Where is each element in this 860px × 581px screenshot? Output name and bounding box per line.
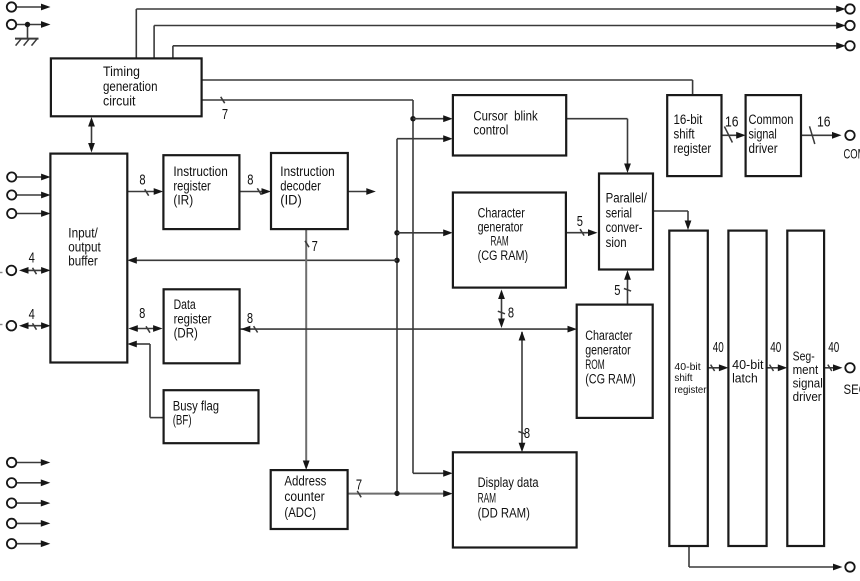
terminal COM output	[845, 131, 854, 140]
block Character generator RAM (CG RAM)	[453, 193, 566, 288]
clipped label fragment at left edge (lower)	[0, 324, 3, 326]
svg-text:blink: blink	[514, 109, 538, 124]
svg-text:40: 40	[770, 340, 781, 356]
terminal E	[7, 209, 16, 218]
wire cursor blink control to parallel/serial conversion	[566, 119, 631, 173]
terminal RS	[7, 172, 16, 181]
svg-text:counter: counter	[284, 489, 325, 504]
svg-text:output: output	[68, 240, 101, 255]
terminal bottom-left 2	[7, 478, 16, 487]
wire bidirectional 4-bit bus DB4-DB7 terminal to input/output buffer	[19, 267, 51, 274]
bus width label 5 (CG ROM output)	[614, 283, 620, 299]
svg-text:buffer: buffer	[68, 253, 98, 268]
svg-text:7: 7	[312, 239, 318, 255]
block Parallel/serial conversion	[599, 174, 653, 270]
svg-text:4: 4	[29, 251, 35, 267]
svg-text:(DR): (DR)	[174, 326, 198, 341]
block Instruction decoder (ID)	[271, 153, 348, 229]
wire 7-bit address: address counter to display data RAM	[348, 490, 453, 497]
wire branch to character generator RAM input	[397, 229, 453, 236]
svg-text:16: 16	[817, 114, 831, 130]
svg-text:(CG RAM): (CG RAM)	[478, 248, 528, 263]
bus width label 8 (DD RAM vertical)	[524, 426, 530, 442]
svg-text:5: 5	[577, 214, 583, 230]
block Address counter (ADC)	[271, 470, 348, 529]
terminal OSC2	[7, 20, 16, 29]
wire instruction decoder output stub (to timing area)	[348, 188, 376, 195]
wire OSC2 terminal lead with ground tap	[16, 21, 50, 38]
svg-text:Input/: Input/	[68, 226, 98, 241]
svg-text:ROM: ROM	[585, 357, 605, 372]
svg-text:(DD RAM): (DD RAM)	[478, 506, 530, 521]
wire 8-bit bus: input/output buffer to instruction register	[127, 188, 163, 196]
svg-text:16-bit: 16-bit	[674, 112, 703, 127]
block Instruction register (IR)	[163, 155, 239, 229]
svg-text:Cursor: Cursor	[473, 109, 508, 124]
svg-text:(ADC): (ADC)	[284, 505, 316, 520]
terminal SEG output	[845, 363, 854, 372]
block Segment signal driver (tall)	[787, 231, 824, 546]
svg-text:Address: Address	[284, 474, 326, 489]
svg-text:conver-: conver-	[606, 220, 643, 235]
svg-text:shift: shift	[674, 372, 692, 384]
wire 7-line bus from timing generation circuit down to display data RAM	[202, 97, 453, 477]
wire 40-bit shift register serial out to bottom-right terminal	[689, 546, 843, 570]
wire address bus (line B): cursor blink input 2 riser down to address counter output rail	[397, 135, 453, 493]
wire 7-bit bus: instruction decoder down to address counter	[303, 229, 310, 470]
wire bidirectional 8-bit: character generator RAM to data bus	[498, 290, 505, 329]
svg-text:8: 8	[139, 172, 145, 188]
bus width label 5 (CG RAM output)	[577, 214, 583, 230]
wire M output: riser to top rail 3, to right-edge terminal	[173, 42, 846, 58]
svg-text:Common: Common	[749, 112, 794, 127]
bus width label 8 (data bus)	[247, 311, 253, 327]
terminal CL2 (top right)	[845, 21, 854, 30]
svg-text:4: 4	[29, 307, 35, 323]
wire bidirectional 8-bit bus: input/output buffer to data register	[128, 325, 162, 333]
svg-text:8: 8	[508, 306, 514, 322]
svg-text:8: 8	[247, 311, 253, 327]
svg-text:Character: Character	[585, 328, 633, 343]
wire OSC1 terminal lead (top-left)	[16, 4, 50, 11]
svg-text:signal: signal	[749, 127, 777, 142]
block Display data RAM (DD RAM)	[453, 452, 577, 547]
block Data register (DR)	[164, 289, 240, 363]
terminal serial data out (bottom right)	[845, 562, 854, 571]
svg-text:generator: generator	[478, 220, 524, 235]
terminal bottom-left 1	[7, 458, 16, 467]
svg-text:shift: shift	[674, 127, 695, 142]
terminal OSC1	[7, 2, 16, 11]
svg-text:(ID): (ID)	[280, 193, 302, 208]
svg-text:Busy flag: Busy flag	[173, 399, 219, 414]
svg-text:Data: Data	[174, 297, 196, 312]
svg-text:driver: driver	[793, 389, 823, 404]
bus width label 40 (driver output)	[828, 340, 839, 356]
wire branch to input/output buffer (read-back)	[127, 257, 397, 264]
wire timing clock to 16-bit shift register	[202, 80, 693, 95]
wire 5-bit bus: character generator RAM to parallel/serial conversion	[566, 229, 598, 236]
bus width label 4 (lower)	[29, 307, 35, 323]
bus width label 7 (ADC output)	[356, 478, 362, 494]
svg-text:control: control	[473, 123, 508, 138]
node ground tap junction	[25, 22, 30, 27]
bus width label 16 (shift register to driver)	[725, 114, 739, 130]
bus width label 40 (shift register to latch)	[713, 340, 724, 356]
svg-text:40: 40	[828, 340, 839, 356]
svg-text:Instruction: Instruction	[280, 164, 334, 179]
wire parallel/serial conversion to 40-bit shift register	[653, 211, 691, 230]
terminal DB0-DB3	[7, 321, 17, 331]
bus width label 8 (ID input)	[247, 172, 253, 188]
block Timing generation circuit	[51, 58, 202, 116]
terminal CL1 (top right)	[845, 4, 854, 13]
wire 40-bit bus: segment signal driver to SEG terminal	[824, 364, 842, 371]
svg-text:SEG: SEG	[844, 382, 860, 397]
svg-text:(BF): (BF)	[173, 413, 192, 428]
svg-text:8: 8	[524, 426, 530, 442]
svg-text:Character: Character	[478, 205, 526, 220]
svg-text:8: 8	[139, 306, 145, 322]
block Busy flag (BF)	[164, 390, 259, 443]
svg-text:register: register	[174, 311, 212, 326]
block Input/output buffer	[50, 154, 127, 363]
wire 5-bit bus: character generator ROM up to parallel/serial conversion	[624, 270, 631, 304]
svg-text:(IR): (IR)	[173, 193, 193, 208]
node junction: address bus to CG RAM input	[394, 230, 399, 235]
svg-text:40: 40	[713, 340, 724, 356]
svg-text:(CG RAM): (CG RAM)	[585, 372, 636, 387]
terminal R/W	[7, 190, 16, 199]
svg-text:7: 7	[356, 478, 362, 494]
svg-text:circuit: circuit	[103, 94, 136, 109]
svg-text:Instruction: Instruction	[173, 164, 227, 179]
svg-text:register: register	[173, 178, 211, 193]
svg-text:RAM: RAM	[491, 234, 509, 249]
svg-text:register: register	[674, 141, 712, 156]
bus width label 7 (ADC input)	[312, 239, 318, 255]
wire bidirectional: timing generation circuit to input/output buffer	[88, 117, 95, 153]
svg-text:serial: serial	[606, 205, 632, 220]
wire MPU control terminals (bottom left group of 5)	[16, 459, 50, 547]
block Common signal driver	[746, 95, 801, 176]
wire CL2 output: riser to top rail 2, to right-edge terminal	[154, 22, 846, 58]
bus width label 4 (upper)	[29, 251, 35, 267]
wire busy flag to input/output buffer	[127, 341, 163, 418]
svg-text:driver: driver	[749, 141, 779, 156]
svg-text:5: 5	[614, 283, 620, 299]
svg-text:40-bit: 40-bit	[732, 358, 764, 372]
terminal DB4-DB7	[7, 266, 17, 276]
bus width label 40 (latch to driver)	[770, 340, 781, 356]
wire 16-bit bus: common signal driver to COM terminal	[801, 126, 842, 144]
wire bidirectional 4-bit bus DB0-DB3 terminal to input/output buffer	[19, 322, 51, 329]
bus width label 8 (DR left)	[139, 306, 145, 322]
block Cursor blink control	[453, 95, 566, 155]
label COM1 to COM16 (clipped)	[844, 146, 860, 161]
bus width label 8 (IR input)	[139, 172, 145, 188]
terminal bottom-left 4	[7, 519, 16, 528]
svg-text:generation: generation	[103, 79, 158, 94]
svg-text:generator: generator	[585, 343, 631, 358]
svg-text:7: 7	[222, 107, 228, 123]
svg-text:Parallel/: Parallel/	[606, 190, 648, 205]
svg-text:COM: COM	[844, 146, 860, 161]
bus width label 7 (timing output)	[222, 107, 228, 123]
clipped label fragment at left edge (upper)	[0, 272, 3, 274]
wire bidirectional 8-bit: data bus to display data RAM	[518, 331, 525, 452]
wire 8-bit data bus: data register to character generator ROM	[240, 326, 577, 333]
wire CL1 output: riser from timing box top to top rail 1, to right-edge terminal	[136, 6, 845, 59]
wire 40-bit bus: 40-bit latch to segment signal driver	[767, 364, 788, 371]
svg-text:RAM: RAM	[478, 490, 497, 505]
node junction: address bus read-back to input/output buffer	[394, 258, 399, 263]
svg-text:16: 16	[725, 114, 739, 130]
block Character generator ROM (CG RAM)	[577, 305, 653, 418]
terminal bottom-left 3	[7, 498, 16, 507]
svg-text:decoder: decoder	[280, 178, 321, 193]
block 40-bit shift register (tall)	[669, 231, 708, 546]
svg-text:sion: sion	[606, 235, 627, 250]
wire 40-bit bus: 40-bit shift register to 40-bit latch	[708, 364, 729, 371]
svg-text:Display data: Display data	[478, 475, 539, 490]
wire 16-bit bus: 16-bit shift register to common signal driver	[722, 127, 746, 143]
wire 8-bit bus: instruction register to instruction decoder	[239, 188, 271, 195]
block 40-bit latch (tall)	[728, 231, 766, 546]
node junction: ADC output to address bus riser	[394, 491, 399, 496]
label SEG1 to SEG40 (clipped)	[844, 382, 860, 397]
svg-text:8: 8	[247, 172, 253, 188]
svg-text:latch: latch	[732, 371, 758, 385]
terminal bottom-left 5	[7, 539, 16, 548]
ground	[15, 39, 39, 46]
terminal M (top right)	[845, 41, 854, 50]
bus width label 8 (CG RAM vertical)	[508, 306, 514, 322]
svg-text:register: register	[674, 384, 707, 396]
wire MPU data terminals RS, RW, E into input/output buffer	[16, 174, 50, 217]
block 16-bit shift register	[667, 95, 721, 176]
node junction: 7-line bus to cursor blink control	[410, 116, 415, 121]
wire branch to cursor blink control input 1	[413, 115, 453, 122]
bus width label 16 (driver output)	[817, 114, 831, 130]
svg-text:Timing: Timing	[103, 64, 140, 79]
